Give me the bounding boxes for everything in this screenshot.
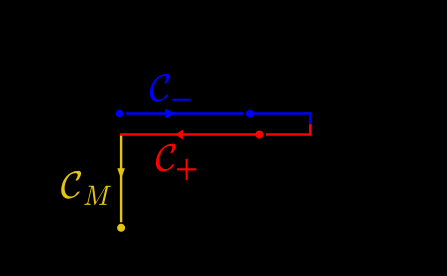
label C_minus : subscript minus (blue) (172, 99, 191, 101)
label C_M : subscript italic M (yellow) (84, 186, 111, 205)
label C_plus : subscript plus horizontal bar (red) (177, 168, 197, 170)
label C_M : calligraphic C (yellow) (61, 171, 81, 199)
contour C_- wire (blue, left to right then down at right end) (126, 114, 311, 125)
gap in red wire after dot (263, 133, 266, 136)
contour C_+ arrowhead (left) (175, 130, 183, 140)
label C_plus : subscript plus vertical bar (red) (186, 159, 188, 180)
gap in blue wire before second dot (243, 112, 246, 115)
contour C_- start dot (116, 110, 124, 118)
contour C_- arrowhead (right) (165, 109, 176, 119)
label C_plus : calligraphic C (red) (156, 144, 176, 172)
contour C_M vertical wire (yellow) (120, 135, 122, 223)
label C_minus : calligraphic C (blue) (150, 74, 170, 102)
contour C_- time dot (246, 110, 254, 118)
contour C_+ time dot (255, 131, 263, 139)
contour C_M arrowhead (down) (117, 168, 125, 179)
contour C_+ wire (red, down right side then right to left) (120, 124, 310, 134)
contour C_M endpoint dot (117, 224, 125, 232)
